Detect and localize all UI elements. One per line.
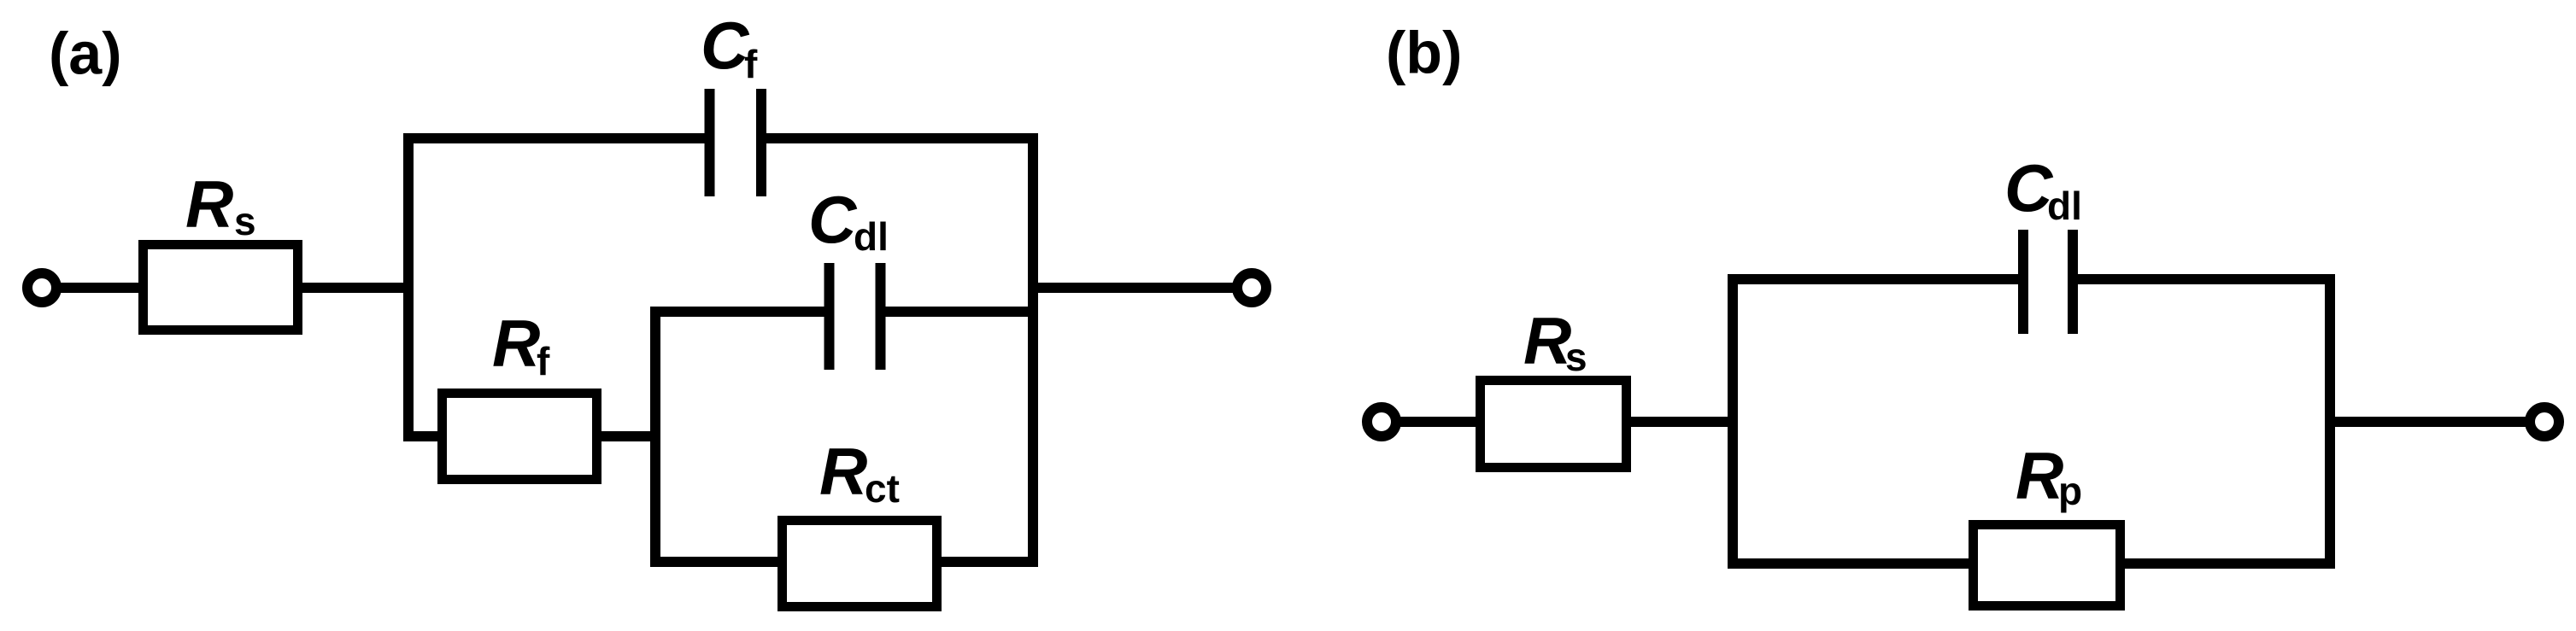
label Rs (a) bbox=[185, 167, 256, 243]
wire: bottom branch left (b) bbox=[1728, 558, 1974, 569]
capacitor Cdl right plate (a) bbox=[876, 263, 886, 370]
svg-text:p: p bbox=[2058, 469, 2082, 513]
wire: Cdl branch right (a) bbox=[884, 307, 1033, 317]
svg-text:f: f bbox=[537, 339, 550, 383]
capacitor Cdl right plate (b) bbox=[2068, 230, 2078, 334]
capacitor Cf left plate bbox=[705, 89, 715, 196]
svg-text:R: R bbox=[1523, 303, 1571, 378]
svg-text:R: R bbox=[185, 167, 233, 242]
wire: Rs to node bbox=[302, 283, 414, 293]
wire: top branch right (b) bbox=[2076, 274, 2335, 284]
right vertical wire (a) bbox=[1028, 133, 1038, 567]
wire: top branch right (a) bbox=[765, 133, 1038, 143]
terminal right (b) bbox=[2530, 407, 2559, 436]
wire: Rs to parallel box (b) bbox=[1631, 417, 1738, 427]
wire: bottom branch right (b) bbox=[2125, 558, 2335, 569]
terminal left (b) bbox=[1367, 407, 1396, 436]
inner-left vertical wire (a) bbox=[650, 307, 660, 567]
right vertical wire (b) bbox=[2325, 274, 2335, 569]
resistor Rf bbox=[443, 394, 597, 480]
wire: left terminal to Rs (b) bbox=[1382, 417, 1481, 427]
node vertical wire (a) bbox=[403, 133, 414, 441]
wire: top branch left (b) bbox=[1728, 274, 2020, 284]
svg-text:dl: dl bbox=[2047, 184, 2082, 228]
wire: left terminal to Rs bbox=[42, 283, 144, 293]
wire: output to right terminal (a) bbox=[1033, 283, 1237, 293]
terminal left (a) bbox=[27, 273, 56, 302]
svg-text:dl: dl bbox=[854, 214, 889, 259]
label Rf bbox=[492, 306, 550, 383]
svg-text:R: R bbox=[819, 434, 867, 509]
svg-text:R: R bbox=[2016, 438, 2063, 513]
capacitor Cdl left plate (b) bbox=[2018, 230, 2028, 334]
wire: node to Rf bbox=[403, 431, 443, 441]
svg-text:C: C bbox=[701, 8, 750, 83]
resistor Rs (a) bbox=[144, 245, 298, 330]
wire: Rct branch left bbox=[650, 557, 783, 567]
label Rct bbox=[819, 434, 900, 511]
label Rs (b) bbox=[1523, 303, 1587, 379]
terminal right (a) bbox=[1237, 273, 1266, 302]
wire: top branch left (a) bbox=[403, 133, 706, 143]
wire: Rf to inner node bbox=[601, 431, 660, 441]
svg-text:f: f bbox=[744, 42, 758, 86]
capacitor Cdl left plate (a) bbox=[824, 263, 835, 370]
label Cdl (b) bbox=[2004, 150, 2082, 228]
svg-text:s: s bbox=[1565, 335, 1587, 379]
svg-text:C: C bbox=[808, 182, 858, 257]
resistor Rs (b) bbox=[1481, 381, 1627, 468]
wire: Rct branch right bbox=[942, 557, 1038, 567]
capacitor Cf right plate bbox=[756, 89, 766, 196]
svg-text:s: s bbox=[234, 199, 256, 243]
label Cdl (a) bbox=[808, 182, 889, 259]
resistor Rp bbox=[1974, 525, 2121, 606]
wire: Cdl branch left (a) bbox=[655, 307, 825, 317]
svg-text:R: R bbox=[492, 306, 540, 381]
svg-text:(b): (b) bbox=[1386, 20, 1462, 86]
wire: output to right terminal (b) bbox=[2330, 417, 2530, 427]
label Rp bbox=[2016, 438, 2082, 513]
resistor Rct bbox=[783, 521, 937, 607]
svg-text:ct: ct bbox=[865, 466, 900, 511]
label Cf bbox=[701, 8, 758, 86]
left vertical wire (b) bbox=[1728, 274, 1738, 569]
svg-text:(a): (a) bbox=[49, 20, 122, 87]
